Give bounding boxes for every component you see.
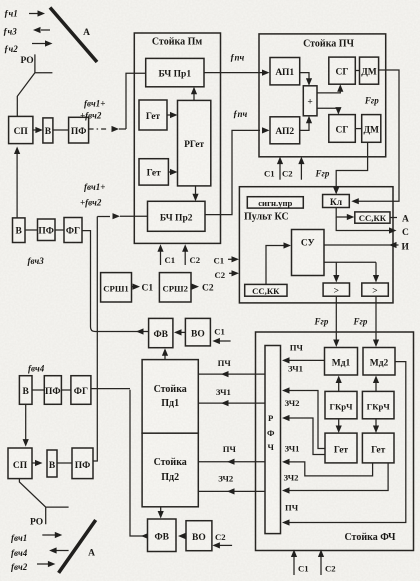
wire ПЧ to Пд1 bbox=[198, 358, 265, 377]
wire СП to В bbox=[33, 127, 43, 133]
block В (fвч3) bbox=[13, 218, 26, 243]
wire Fгр to Мд1 bbox=[314, 296, 340, 347]
block РГет bbox=[178, 100, 211, 185]
wire С1 into Пульт bbox=[214, 256, 240, 266]
node fч2 label (top) bbox=[4, 44, 18, 54]
wire ГКрЧ to Гет (left) bbox=[336, 419, 342, 433]
block ПФ (top) bbox=[69, 117, 89, 143]
wire ВО to ФВ (upper) bbox=[174, 329, 185, 335]
antenna A (top) bbox=[50, 8, 97, 63]
block Гет (ФЧ left) bbox=[325, 433, 357, 463]
wire С1 into ФЧ bbox=[291, 550, 309, 576]
wire fвч1+fвч2 to БЧ Пр2 bbox=[97, 213, 147, 219]
block БЧ Пр2 bbox=[148, 201, 206, 231]
wire В to ПФ (bottom) bbox=[57, 462, 72, 464]
wire В to ПФ (fвч4) bbox=[32, 389, 44, 391]
block В (bottom) bbox=[47, 450, 57, 477]
block ГКрЧ (left) bbox=[325, 391, 357, 418]
block ФВ (upper) bbox=[149, 318, 173, 347]
wire РГет to БЧ Пр2 bbox=[192, 186, 198, 201]
wire ЗЧ2 to Пд2 bbox=[198, 474, 265, 495]
node fвч4 label (bottom) bbox=[11, 548, 28, 558]
wire ФВ upper output bbox=[136, 328, 144, 334]
block Гет (Пм lower) bbox=[139, 159, 168, 185]
node fвч3 label bbox=[28, 256, 45, 266]
wire Кл to СС,КК bbox=[336, 208, 354, 221]
wire ЗЧ2 Гет2 to РФЧ bbox=[282, 463, 388, 494]
wire riser fвч3 bus bbox=[93, 217, 97, 462]
block ПФ (bottom) bbox=[72, 448, 93, 479]
node fч1 label (top) bbox=[4, 9, 18, 19]
wire РГет to БЧ Пр1 bbox=[191, 87, 197, 101]
node А label bbox=[390, 215, 409, 225]
block СРШ1 bbox=[101, 273, 132, 302]
console Пульт КС frame bbox=[239, 187, 393, 303]
block СГ (upper) bbox=[329, 57, 356, 84]
wire В fвч3 to СП bbox=[14, 147, 20, 218]
stack Стойка Пд2 bbox=[142, 433, 198, 507]
block СГ (lower) bbox=[329, 115, 356, 143]
block АП2 bbox=[270, 117, 300, 144]
wire ФГ fвч3 down-bus bbox=[82, 231, 149, 332]
block ВО (upper) bbox=[185, 318, 210, 346]
antenna switch РО (bottom) bbox=[19, 479, 68, 528]
wire АП2 to summer bbox=[300, 116, 312, 131]
wire ПЧ to Пд2 bbox=[198, 444, 265, 465]
wire fпч БЧ Пр1 to АП1 bbox=[204, 53, 270, 76]
wire ДМ lower to Кл (Fгр) bbox=[315, 143, 368, 195]
wire С output bbox=[336, 217, 409, 238]
wire СРШ1 to С1 bbox=[132, 284, 154, 294]
wire ПЧ Мд1 to РФЧ bbox=[282, 343, 325, 364]
wire С2 into ФЧ bbox=[318, 550, 336, 576]
wire riser to БЧ Пр1 bbox=[126, 73, 146, 129]
wire fвч2 arrow (bottom) bbox=[37, 561, 55, 567]
node fвч1+fвч2 label (lower) bbox=[80, 182, 105, 208]
block СС,КК (upper) bbox=[355, 212, 390, 223]
block В (top) bbox=[43, 118, 53, 143]
block ГКрЧ (right) bbox=[362, 391, 394, 418]
node fч3 label (top) bbox=[3, 27, 17, 37]
block Гет (Пм upper) bbox=[139, 100, 167, 130]
wire С2 into ПЧ bbox=[282, 157, 305, 180]
wire Пд2 to ФВ lower bbox=[158, 507, 164, 519]
wire С2 into ВО lower bbox=[212, 532, 232, 549]
node сигн.упр box bbox=[247, 197, 303, 208]
wire С2 into Пульт bbox=[215, 270, 240, 280]
wire ПФ to БЧ Пр1 (dash-dot) bbox=[89, 126, 126, 132]
wire Гет upper to РГет bbox=[167, 112, 178, 118]
wire fч3 arrow bbox=[33, 27, 50, 33]
block РФЧ bbox=[265, 346, 281, 534]
wire summer to СГ lower bbox=[317, 107, 342, 115]
block Кл bbox=[323, 195, 350, 209]
wire ПФ to ФГ (fвч3) bbox=[55, 229, 64, 231]
block СУ bbox=[292, 230, 325, 276]
block Мд1 bbox=[325, 348, 358, 376]
node fвч4 label bbox=[28, 364, 45, 374]
wire СРШ2 to С2 bbox=[191, 284, 214, 294]
wire summer to СГ upper bbox=[317, 84, 343, 93]
wire ЗЧ1 to Пд1 bbox=[198, 387, 265, 406]
wire И input bbox=[324, 242, 410, 253]
wire ЗЧ1 Гет to РФЧ bbox=[282, 364, 325, 449]
wire СГ to ДМ (lower) bbox=[355, 128, 361, 130]
wire В to ПФ bbox=[53, 129, 69, 131]
node fвч1 label (bottom) bbox=[11, 533, 27, 543]
wire Гет lower to РГет bbox=[168, 169, 177, 175]
wire ПЧ Мд2 to РФЧ bbox=[282, 362, 406, 526]
wire ВО to ФВ (lower) bbox=[178, 533, 186, 539]
wire ФВ lower output bbox=[91, 389, 149, 539]
block ПФ (fвч4) bbox=[44, 376, 61, 405]
wire ЗЧ2 Гет to РФЧ bbox=[282, 398, 325, 455]
wire Пд1 to ФВ bbox=[162, 348, 168, 359]
block Мд2 bbox=[363, 348, 395, 376]
stack Стойка ПЧ frame bbox=[259, 34, 386, 157]
block threshold 2 bbox=[362, 283, 389, 297]
wire Fгр to Мд2 bbox=[353, 296, 380, 347]
block БЧ Пр1 bbox=[146, 58, 204, 86]
block ФГ (fвч3) bbox=[64, 218, 82, 243]
node Fгр label (ПЧ) bbox=[364, 96, 379, 106]
block ПФ (fвч3) bbox=[38, 219, 56, 241]
block Гет (ФЧ right) bbox=[362, 433, 394, 463]
wire В to ПФ (fвч3) bbox=[25, 229, 38, 231]
wire СГ to ДМ (upper) bbox=[355, 70, 359, 72]
block summer + bbox=[303, 86, 317, 116]
stack Стойка Пд1 bbox=[142, 360, 198, 434]
wire fч2 arrow bbox=[32, 40, 53, 46]
stack Стойка Пм frame bbox=[134, 33, 220, 243]
wire fвч4 arrow (bottom) bbox=[49, 547, 69, 553]
wire fпч БЧ Пр2 to АП2 bbox=[205, 109, 270, 215]
wire СП to В (bottom) bbox=[32, 460, 43, 466]
wire ПФ to ФГ (fвч4) bbox=[61, 389, 71, 391]
antenna A (bottom) bbox=[59, 520, 96, 573]
wire С2 into Пм bbox=[182, 244, 200, 265]
block СРШ2 bbox=[159, 273, 191, 302]
node fвч2 label (bottom) bbox=[11, 562, 28, 572]
block СП (bottom) bbox=[8, 448, 32, 479]
wire ГКрЧ to Мд1 bbox=[336, 376, 342, 392]
block ВО (lower) bbox=[186, 521, 212, 551]
wire В fвч4 to СП bbox=[23, 404, 29, 446]
antenna switch РО (top) bbox=[17, 54, 52, 116]
block АП1 bbox=[270, 58, 300, 85]
wire С1 into Пм bbox=[157, 244, 175, 265]
node fвч1+fвч2 label (upper) bbox=[80, 99, 105, 121]
wire АП1 to summer bbox=[300, 73, 312, 86]
wire ЗЧ1 Гет2 to РФЧ bbox=[282, 444, 373, 476]
block ДМ (upper) bbox=[360, 57, 379, 84]
wire ГКрЧ to Гет (right) bbox=[373, 419, 379, 433]
block threshold 1 bbox=[323, 283, 349, 297]
stack Стойка ФЧ frame bbox=[256, 332, 414, 551]
block В (fвч4) bbox=[19, 376, 32, 405]
block ФВ (lower) bbox=[148, 519, 177, 552]
wire fч1 arrow bbox=[29, 10, 45, 16]
wire СУ to thresholds bbox=[324, 262, 379, 282]
block СП (top) bbox=[9, 116, 33, 143]
block СС,КК (lower) bbox=[245, 284, 287, 296]
wire С1 into ПЧ bbox=[264, 157, 283, 180]
wire fвч1 arrow (bottom) bbox=[42, 532, 62, 538]
block ФГ (fвч4) bbox=[71, 376, 91, 405]
wire ГКрЧ to Мд2 bbox=[373, 376, 379, 392]
wire ДМ upper to Кл bbox=[351, 70, 399, 204]
wire С1 into ВО upper bbox=[212, 327, 230, 345]
block ДМ (lower) bbox=[362, 115, 381, 143]
wire СС,КК to СУ bbox=[266, 242, 291, 284]
